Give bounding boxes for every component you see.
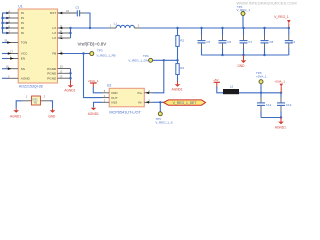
- svg-text:1: 1: [110, 24, 112, 28]
- capacitor C13: [277, 93, 292, 118]
- ground GND right of NT1: [48, 110, 56, 118]
- capacitor C7: [240, 28, 253, 55]
- svg-text:V_REG_1_SET: V_REG_1_SET: [173, 101, 197, 105]
- junction R2 top on bus: [176, 27, 178, 29]
- svg-text:LX: LX: [52, 26, 56, 30]
- svg-text:FB: FB: [52, 52, 56, 56]
- svg-text:C13: C13: [286, 103, 292, 107]
- svg-text:LX: LX: [52, 36, 56, 40]
- svg-text:PGND: PGND: [47, 77, 57, 81]
- wire cap bank bottom bus: [201, 54, 288, 56]
- test point TP1: [237, 5, 251, 28]
- test point TP4: [128, 54, 152, 62]
- svg-text:IN: IN: [21, 11, 24, 15]
- wire U2 VSS down: [94, 102, 103, 107]
- junction C3 leg / LX wire: [89, 27, 91, 29]
- pin AGND 2: [2, 74, 18, 78]
- svg-text:AGND1: AGND1: [10, 115, 21, 119]
- svg-text:TON: TON: [21, 41, 27, 45]
- svg-text:16: 16: [66, 9, 69, 13]
- U1 pins PGND 10 12 13: [58, 65, 71, 79]
- wire U2 IN- to port: [153, 101, 165, 103]
- svg-text:12: 12: [59, 69, 62, 73]
- svg-text:PGND: PGND: [47, 67, 57, 71]
- svg-text:+5VA_1: +5VA_1: [256, 74, 267, 78]
- wire U2 OUT riser: [84, 54, 103, 98]
- svg-text:EN: EN: [21, 57, 25, 61]
- svg-text:17: 17: [10, 50, 13, 54]
- svg-text:SS: SS: [21, 67, 25, 71]
- power port +5V: [213, 78, 220, 86]
- wire NT1 right to GND: [50, 101, 53, 109]
- junction rail at C12: [260, 92, 262, 94]
- svg-text:AGND: AGND: [21, 77, 31, 81]
- power port +5VA_1 right: [274, 80, 285, 93]
- wire LX to inductor: [71, 27, 110, 29]
- svg-text:L2: L2: [230, 85, 234, 89]
- ground AGND1 under U2 VSS: [88, 108, 99, 117]
- test point TP5: [155, 102, 172, 124]
- pin SS 16: [2, 65, 18, 70]
- svg-text:C6: C6: [227, 40, 231, 44]
- capacitor C3: [75, 6, 85, 17]
- svg-text:2: 2: [8, 74, 10, 78]
- svg-text:GND: GND: [237, 64, 245, 68]
- wire C3 to LX node: [85, 13, 90, 28]
- power port V_REG_1: [274, 15, 290, 29]
- wire FB net: [64, 53, 90, 55]
- svg-text:11: 11: [59, 29, 62, 33]
- svg-text:2: 2: [44, 94, 46, 98]
- ground AGND1 bottom right: [275, 118, 286, 130]
- svg-text:+5V: +5V: [213, 78, 220, 82]
- junction dots VIN bus: [1, 17, 3, 29]
- svg-text:V_REG_1_S: V_REG_1_S: [155, 120, 172, 124]
- svg-text:15: 15: [4, 39, 7, 43]
- wire +5V to bead: [217, 87, 223, 93]
- junction PGND low: [69, 77, 71, 79]
- junction FB / U2 OUT riser: [82, 52, 84, 54]
- IC U2 comparator: [102, 84, 153, 115]
- wire comparator IN+ riser: [153, 60, 164, 93]
- svg-text:VDD: VDD: [111, 91, 118, 95]
- svg-text:U1: U1: [18, 5, 22, 9]
- pin FB 2: [58, 49, 64, 54]
- wire C12 C13 bottom: [261, 117, 281, 119]
- svg-text:AGND1: AGND1: [172, 88, 183, 92]
- svg-text:U2: U2: [107, 84, 111, 88]
- pin TON 15: [2, 39, 18, 44]
- pin EN 18: [2, 55, 18, 60]
- svg-text:IN: IN: [21, 21, 24, 25]
- svg-text:2: 2: [138, 24, 140, 28]
- svg-text:C5: C5: [206, 40, 210, 44]
- ground AGND1 left of NT1: [10, 110, 21, 118]
- net tie NT1: [22, 94, 50, 105]
- svg-text:16: 16: [6, 65, 9, 69]
- pin VCC 17: [2, 50, 18, 55]
- svg-text:1: 1: [26, 94, 28, 98]
- svg-text:LX: LX: [52, 31, 56, 35]
- svg-text:IN: IN: [21, 26, 24, 30]
- svg-text:TP3: TP3: [97, 49, 103, 53]
- svg-text:C8: C8: [269, 40, 273, 44]
- power port +5VA_1 above U2: [88, 79, 99, 87]
- resistor R2: [176, 28, 185, 60]
- svg-text:MCP6541UT-L/OT: MCP6541UT-L/OT: [109, 110, 141, 114]
- inductor L1: [110, 21, 142, 28]
- wire divider node: [153, 59, 178, 61]
- capacitor C12: [257, 93, 272, 118]
- svg-text:V_REG_1_FB: V_REG_1_FB: [97, 53, 116, 57]
- U1 pins LX 9 11 14: [58, 24, 71, 39]
- svg-text:C4: C4: [291, 40, 295, 44]
- svg-text:RST: RST: [50, 11, 56, 15]
- svg-text:+5VA_1: +5VA_1: [274, 80, 285, 84]
- wire NT1 left to AGND1: [16, 101, 22, 109]
- svg-text:C3: C3: [75, 6, 79, 10]
- wire PGND bus: [70, 69, 72, 81]
- ferrite bead L2: [223, 85, 239, 95]
- ground AGND1 under R4: [172, 81, 183, 92]
- svg-text:AOZ2153QI-28: AOZ2153QI-28: [19, 85, 43, 89]
- svg-text:Vref(FB)=0.8V: Vref(FB)=0.8V: [78, 41, 107, 46]
- capacitor C8: [261, 28, 274, 55]
- svg-text:R4: R4: [180, 66, 184, 70]
- capacitor C5: [198, 28, 211, 55]
- wire +5VA_1 to U2 VDD: [93, 87, 102, 93]
- junction divider at R: [176, 59, 178, 61]
- svg-text:OUT: OUT: [111, 96, 118, 100]
- U1 pins IN 4 3 5 6 7: [6, 9, 18, 34]
- junction PGND mid: [69, 72, 71, 74]
- svg-text:AGND1: AGND1: [275, 126, 286, 130]
- junction divider node: [163, 59, 165, 61]
- svg-text:TE: TE: [34, 101, 38, 105]
- svg-text:IN+: IN+: [137, 91, 142, 95]
- junction rail at C13: [280, 92, 282, 94]
- IC U1 buck regulator: [18, 5, 57, 89]
- ground AGND1 under PGND: [64, 81, 75, 93]
- svg-text:IN: IN: [21, 31, 24, 35]
- test point TP3: [90, 49, 116, 58]
- svg-text:IN: IN: [21, 16, 24, 20]
- capacitor C6: [219, 28, 232, 55]
- wire +5VA rail: [239, 92, 281, 94]
- svg-text:V_REG_1: V_REG_1: [274, 15, 289, 19]
- svg-text:13: 13: [59, 74, 62, 78]
- svg-text:L1: L1: [114, 21, 118, 25]
- svg-text:GND: GND: [48, 115, 56, 119]
- svg-text:PGND: PGND: [47, 72, 57, 76]
- svg-text:AGND1: AGND1: [88, 112, 99, 116]
- ground GND under cap bank: [237, 55, 246, 68]
- junction LX bus mid: [69, 32, 71, 34]
- svg-text:AGND1: AGND1: [64, 89, 75, 93]
- svg-text:14: 14: [59, 34, 62, 38]
- junction dots bottom bus: [221, 54, 265, 56]
- junction bottom rail at AGND: [280, 116, 282, 118]
- wire VIN bus left of U1: [2, 13, 7, 33]
- resistor R4: [176, 60, 185, 81]
- junction dots top bus at caps: [200, 27, 265, 29]
- svg-text:VSS: VSS: [111, 101, 117, 105]
- svg-text:V_REG_1_DIV: V_REG_1_DIV: [128, 58, 148, 62]
- port V_REG_1_SET: [164, 100, 206, 105]
- wire V_REG_1 top bus: [141, 27, 289, 29]
- svg-text:WWW.INTEGRASOURCES.COM: WWW.INTEGRASOURCES.COM: [236, 1, 296, 6]
- pin RST 16: [58, 9, 77, 14]
- junction IN- / TP5: [159, 101, 161, 103]
- svg-text:R2: R2: [180, 38, 184, 42]
- junction LX bus top: [69, 27, 71, 29]
- capacitor C4: [285, 28, 296, 55]
- svg-text:C7: C7: [248, 40, 252, 44]
- svg-text:IN-: IN-: [138, 101, 142, 105]
- wire LX bus: [70, 28, 72, 38]
- svg-text:VCC: VCC: [21, 52, 28, 56]
- test point TP6: [256, 71, 267, 93]
- svg-text:10: 10: [60, 65, 63, 69]
- svg-text:C12: C12: [266, 103, 272, 107]
